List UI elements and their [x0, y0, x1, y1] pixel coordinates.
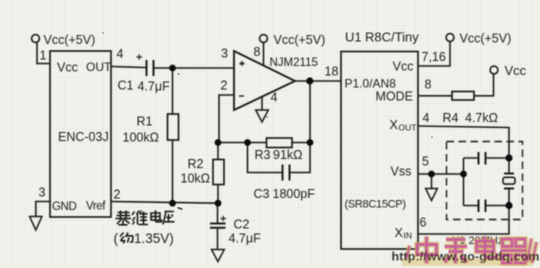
svg-text:NJM2115: NJM2115: [270, 57, 318, 69]
svg-text:R2: R2: [188, 157, 204, 171]
svg-text:10kΩ: 10kΩ: [181, 172, 211, 186]
svg-text:Vcc: Vcc: [393, 60, 414, 74]
svg-text:OUT: OUT: [86, 60, 112, 74]
svg-text:OUT: OUT: [399, 123, 417, 133]
svg-text:U1: U1: [345, 30, 362, 45]
svg-text:4: 4: [271, 91, 278, 105]
svg-text:Vcc(+5V): Vcc(+5V): [274, 33, 326, 47]
svg-text:4.7μF: 4.7μF: [138, 80, 171, 94]
svg-text:IN: IN: [404, 231, 413, 241]
svg-text:Vref: Vref: [86, 201, 106, 213]
svg-text:GND: GND: [52, 201, 76, 213]
svg-text:Vcc(+5V): Vcc(+5V): [44, 33, 96, 47]
svg-text:X: X: [395, 226, 404, 240]
svg-text:R4: R4: [443, 111, 459, 125]
svg-text:91kΩ: 91kΩ: [273, 148, 303, 162]
svg-text:1: 1: [40, 49, 47, 63]
svg-text:18: 18: [325, 65, 339, 79]
svg-text:(: (: [114, 231, 119, 246]
svg-text:4: 4: [117, 47, 124, 61]
svg-text:1800pF: 1800pF: [273, 187, 316, 201]
svg-text:100kΩ: 100kΩ: [123, 131, 159, 145]
svg-text:C2: C2: [234, 218, 250, 232]
svg-text:(SR8C15CP): (SR8C15CP): [345, 199, 406, 211]
svg-text:ENC-03J: ENC-03J: [58, 130, 109, 144]
svg-text:http://www.go-gddq.com: http://www.go-gddq.com: [392, 250, 540, 264]
svg-text:4: 4: [423, 111, 430, 125]
svg-text:1.35V): 1.35V): [134, 231, 174, 246]
svg-text:R8C/Tiny: R8C/Tiny: [365, 30, 419, 45]
svg-text:Vss: Vss: [391, 165, 412, 179]
svg-text:Vcc(+5V): Vcc(+5V): [460, 32, 512, 46]
svg-text:4.7kΩ: 4.7kΩ: [465, 111, 498, 125]
svg-text:2: 2: [114, 188, 121, 202]
svg-text:Vcc: Vcc: [505, 63, 527, 78]
svg-text:X: X: [390, 118, 399, 132]
svg-text:C1: C1: [118, 79, 134, 93]
svg-text:8: 8: [425, 78, 432, 92]
svg-text:C3: C3: [254, 187, 270, 201]
svg-text:R3: R3: [255, 148, 271, 162]
svg-text:3: 3: [221, 47, 228, 61]
svg-text:4.7μF: 4.7μF: [229, 232, 262, 246]
svg-text:P1.0/AN8: P1.0/AN8: [345, 77, 397, 91]
svg-text:3: 3: [39, 186, 46, 200]
svg-text:MODE: MODE: [376, 90, 414, 104]
svg-text:7,16: 7,16: [422, 50, 446, 64]
svg-text:8: 8: [254, 45, 261, 59]
svg-text:2: 2: [221, 79, 228, 93]
svg-text:5: 5: [422, 155, 429, 169]
svg-text:6: 6: [420, 216, 427, 230]
svg-text:R1: R1: [137, 115, 153, 129]
svg-text:Vcc: Vcc: [57, 61, 78, 75]
